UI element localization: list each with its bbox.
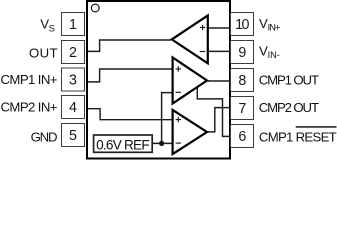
pin box 10 [231,13,254,36]
pin box 5 [62,124,85,147]
svg-text:6: 6 [238,129,246,145]
wire pin2 OUT to comparator V output [88,40,171,51]
op-amp comparator V (left-pointing) [172,15,208,63]
wire pin3 CMP1 IN+ to CMP1 + input [88,69,173,82]
svg-text:IN+: IN+ [268,22,281,32]
svg-text:CMP2 IN+: CMP2 IN+ [1,100,58,115]
minus sign comparator V [200,51,205,53]
plus sign comparator V [200,25,205,30]
svg-text:10: 10 [235,17,249,33]
pin box 1 [62,13,85,36]
0.6V REF block [94,135,153,152]
op-amp CMP1 (right-pointing) [173,57,207,103]
wire pin6 CMP1 RESET to CMP1 [197,87,230,136]
IC body U1 [87,1,230,159]
svg-text:8: 8 [238,73,246,89]
pin box 9 [231,41,254,64]
wire CMP2 output to pin7 [208,108,231,132]
svg-text:OUT: OUT [29,46,58,61]
minus sign CMP2 [176,142,181,144]
svg-text:CMP1 OUT: CMP1 OUT [259,73,319,88]
svg-text:CMP1 RESET: CMP1 RESET [259,129,337,144]
plus sign CMP2 [176,117,181,122]
wire comparator V - input to pin9 [208,50,230,52]
op-amp CMP2 (right-pointing) [173,110,207,154]
svg-text:IN-: IN- [268,50,280,60]
pin-1 indicator circle [91,4,99,12]
wire CMP1 output to pin8 [208,80,231,82]
plus sign CMP1 [176,66,181,71]
pin box 2 [62,41,85,64]
svg-text:1: 1 [69,17,77,33]
wire 0.6V REF output to CMP2 - input [152,142,173,144]
svg-text:CMP2 OUT: CMP2 OUT [259,100,319,115]
pin box 7 [231,97,254,120]
svg-text:4: 4 [69,100,77,116]
wire REF vertical to CMP1 - input [162,93,173,144]
junction dot node REF [159,141,164,146]
overline over RESET [296,126,337,128]
svg-text:9: 9 [238,45,246,61]
svg-text:S: S [49,24,55,34]
pin box 6 [231,125,254,148]
svg-text:2: 2 [69,45,77,61]
svg-text:0.6V REF: 0.6V REF [96,138,149,153]
pin box 4 [62,96,85,119]
minus sign CMP1 [176,91,181,93]
svg-text:7: 7 [238,101,246,117]
svg-text:GND: GND [31,129,58,144]
pin box 3 [62,68,85,91]
svg-text:5: 5 [69,128,77,144]
svg-text:CMP1 IN+: CMP1 IN+ [1,72,58,87]
pin box 8 [231,69,254,92]
svg-text:3: 3 [69,73,77,89]
wire comparator V + input to pin10 [208,27,230,29]
wire pin4 CMP2 IN+ to CMP2 + input [88,109,173,120]
